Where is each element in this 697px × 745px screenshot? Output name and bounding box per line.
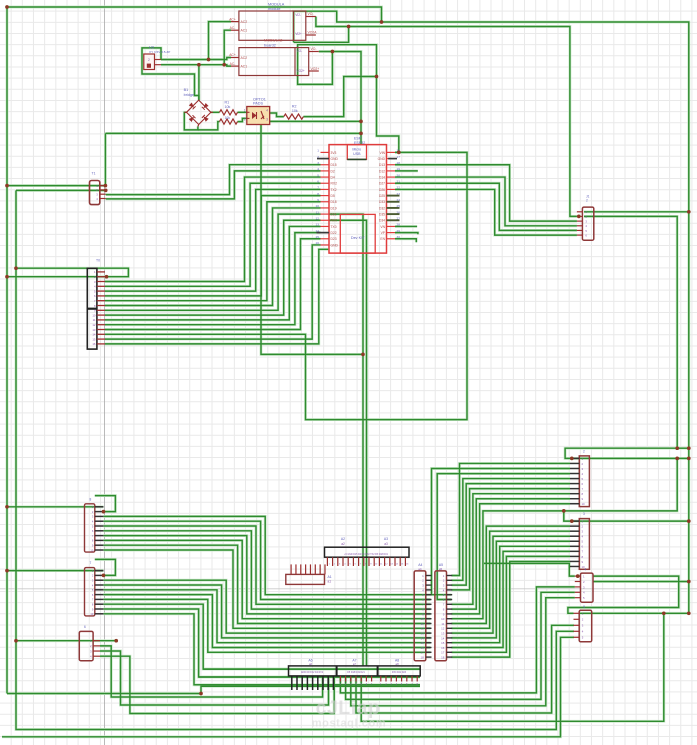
junction CN1 row loop: [675, 457, 679, 461]
svg-text:RX2: RX2: [331, 182, 338, 186]
svg-text:D34: D34: [379, 219, 385, 223]
svg-text:12: 12: [316, 216, 320, 220]
svg-text:a1: a1: [328, 580, 332, 584]
svg-text:7: 7: [90, 561, 92, 565]
svg-text:a7: a7: [353, 662, 357, 666]
svg-text:A3: A3: [384, 537, 388, 541]
svg-text:bridge: bridge: [184, 93, 195, 97]
svg-text:Micro: Micro: [352, 148, 361, 152]
junction left bus2 at D: [14, 639, 18, 643]
svg-text:7: 7: [317, 186, 319, 190]
junction D pin1: [114, 639, 118, 643]
svg-text:AC1: AC1: [241, 29, 248, 33]
svg-text:11: 11: [93, 318, 96, 322]
svg-text:6: 6: [317, 179, 319, 183]
resistor R2: [284, 105, 304, 120]
svg-text:GND: GND: [378, 157, 386, 161]
svg-text:12: 12: [441, 627, 445, 631]
svg-text:module: module: [268, 7, 280, 11]
connector T1: [90, 172, 106, 205]
svg-text:D18: D18: [331, 200, 337, 204]
junction bridge feed: [197, 63, 201, 67]
svg-text:D5 D18 D19 D21: D5 D18 D19 D21: [347, 672, 365, 674]
svg-text:AC2: AC2: [241, 56, 248, 60]
optocoupler OPTO1: [244, 97, 270, 124]
svg-text:VO2+: VO2+: [311, 67, 320, 71]
svg-text:A2: A2: [341, 537, 345, 541]
svg-text:9: 9: [317, 198, 319, 202]
junction B pin2: [102, 510, 106, 514]
svg-text:16: 16: [92, 342, 96, 346]
svg-text:D14: D14: [379, 175, 385, 179]
svg-text:12: 12: [420, 627, 424, 631]
junction CN3 pin1: [576, 574, 580, 578]
junction left bus2 T0: [14, 266, 18, 270]
svg-text:11: 11: [441, 622, 444, 626]
svg-text:MODULA: MODULA: [268, 3, 285, 7]
junction T1 pin2: [104, 189, 108, 193]
svg-text:30: 30: [397, 235, 401, 239]
junction CN2 feed join: [562, 509, 566, 513]
svg-text:17: 17: [420, 651, 424, 655]
junction board2 loop R2 tap: [375, 75, 379, 79]
svg-text:VIN: VIN: [380, 151, 386, 155]
svg-text:D25: D25: [379, 194, 385, 198]
svg-text:15: 15: [316, 235, 320, 239]
svg-text:VO-: VO-: [311, 47, 317, 51]
svg-text:1: 1: [317, 149, 319, 153]
svg-text:mostaql.com: mostaql.com: [312, 718, 386, 730]
svg-text:A1: A1: [328, 575, 332, 579]
svg-text:D27: D27: [379, 182, 385, 186]
svg-text:4: 4: [317, 167, 319, 171]
junction CN1 pin1: [570, 457, 574, 461]
svg-text:D13: D13: [379, 163, 385, 167]
resistor R1: [220, 101, 238, 115]
svg-text:XY 3.5V-3.5-3P: XY 3.5V-3.5-3P: [149, 50, 170, 54]
junction C pin2: [102, 574, 106, 578]
svg-text:D23: D23: [331, 237, 337, 241]
svg-text:12: 12: [92, 323, 96, 327]
svg-text:AC-: AC-: [230, 62, 236, 66]
junction J1p2 VIN-B: [687, 446, 691, 450]
junction opto column join: [361, 353, 365, 357]
svg-text:28: 28: [397, 223, 401, 227]
svg-text:a3: a3: [384, 542, 388, 546]
svg-text:D32: D32: [379, 206, 385, 210]
connector T0: [87, 259, 105, 350]
svg-text:21: 21: [397, 179, 401, 183]
svg-text:AC+: AC+: [229, 17, 236, 21]
svg-text:13: 13: [441, 632, 445, 636]
svg-text:U3: U3: [149, 46, 154, 50]
svg-text:cJLiap: cJLiap: [316, 697, 381, 719]
svg-text:AC2: AC2: [241, 20, 248, 24]
junction B feed: [5, 505, 9, 509]
svg-text:14: 14: [420, 636, 424, 640]
junction top B-line: [380, 20, 384, 24]
svg-text:D2: D2: [331, 169, 335, 173]
svg-text:VI2+: VI2+: [295, 32, 302, 36]
svg-text:10: 10: [316, 204, 320, 208]
svg-text:D21: D21: [331, 213, 337, 217]
module U4 MODULA: [229, 3, 317, 41]
junction C feed: [5, 569, 9, 573]
junction CN3 edge: [687, 580, 691, 584]
svg-text:VO2+: VO2+: [297, 69, 305, 73]
sheet boundary vertical: [104, 0, 106, 745]
regulator U3: [144, 46, 170, 70]
svg-text:a8: a8: [396, 662, 400, 666]
header A2 A3: [325, 537, 410, 566]
svg-text:1: 1: [244, 108, 246, 112]
sheet boundary horizontal: [0, 588, 697, 590]
svg-text:AC+: AC+: [229, 53, 236, 57]
svg-text:18: 18: [420, 656, 424, 660]
svg-text:2: 2: [244, 118, 246, 122]
watermark: [312, 697, 386, 730]
svg-text:a5: a5: [439, 567, 443, 571]
svg-text:a2: a2: [341, 542, 345, 546]
connector CN3: [575, 568, 593, 603]
svg-text:USB: USB: [353, 152, 361, 156]
svg-text:J1: J1: [586, 195, 590, 199]
svg-text:16: 16: [441, 646, 445, 650]
svg-text:19: 19: [397, 167, 401, 171]
svg-text:RX0 D22 D23: RX0 D22 D23: [392, 672, 407, 674]
bridge rectifier B1: [184, 88, 213, 127]
svg-text:D19: D19: [331, 206, 337, 210]
svg-text:10k: 10k: [292, 109, 298, 113]
svg-text:+5 GND D15 D2 D4 RX2 TX2 D5 D1: +5 GND D15 D2 D4 RX2 TX2 D5 D18 D19: [344, 554, 388, 556]
connector J1: [577, 195, 594, 241]
svg-text:4: 4: [266, 108, 268, 112]
connector CN1: [570, 449, 589, 506]
svg-text:14: 14: [92, 333, 96, 337]
svg-text:AC-: AC-: [230, 26, 236, 30]
connector CN4: [574, 605, 592, 642]
svg-text:6: 6: [84, 625, 86, 629]
svg-text:22: 22: [397, 186, 401, 190]
svg-text:13: 13: [92, 328, 96, 332]
svg-text:GND: GND: [331, 157, 339, 161]
svg-text:3: 3: [266, 118, 268, 122]
svg-text:a4: a4: [418, 567, 422, 571]
svg-text:15: 15: [441, 641, 445, 645]
connector CN2: [570, 512, 589, 569]
svg-text:8: 8: [317, 192, 319, 196]
junction frame branch: [199, 692, 203, 696]
junction J1 VIN-B: [687, 210, 691, 214]
junction T0 feed: [5, 275, 9, 279]
svg-text:10k: 10k: [225, 105, 231, 109]
svg-text:8: 8: [90, 497, 92, 501]
svg-text:3: 3: [317, 161, 319, 165]
svg-text:2: 2: [583, 449, 585, 453]
svg-text:3V3: 3V3: [331, 151, 337, 155]
svg-text:10k: 10k: [225, 116, 231, 120]
junction VIN module join: [397, 151, 401, 155]
svg-text:VO-: VO-: [297, 49, 303, 53]
header A6 A7 A8: [289, 659, 421, 690]
connector B: [85, 497, 104, 552]
svg-text:10: 10: [441, 617, 445, 621]
junction J1p2 corner: [675, 446, 679, 450]
svg-text:10: 10: [92, 313, 96, 317]
svg-text:PADS: PADS: [253, 102, 264, 106]
svg-text:RX0: RX0: [331, 219, 338, 223]
svg-text:T1: T1: [92, 172, 96, 176]
svg-text:3: 3: [583, 512, 585, 516]
svg-text:D15: D15: [331, 163, 337, 167]
svg-text:2: 2: [148, 58, 150, 62]
junction J1 pin2: [577, 215, 581, 219]
svg-text:15: 15: [92, 337, 96, 341]
svg-text:AC1: AC1: [241, 65, 248, 69]
resistor R1B: [220, 116, 238, 124]
svg-text:MODULA2: MODULA2: [264, 39, 282, 43]
svg-text:TX0: TX0: [331, 225, 337, 229]
svg-text:13: 13: [316, 223, 320, 227]
svg-text:Dev KIT: Dev KIT: [351, 236, 365, 240]
junction rowE CN4row: [662, 611, 666, 615]
svg-text:GND: GND: [331, 243, 339, 247]
junction CN2 pin1: [570, 519, 574, 523]
svg-text:20: 20: [397, 173, 401, 177]
svg-text:14: 14: [441, 636, 445, 640]
svg-text:10: 10: [420, 617, 424, 621]
svg-text:18: 18: [397, 161, 401, 165]
svg-text:D4: D4: [331, 175, 335, 179]
svg-text:16: 16: [420, 646, 424, 650]
svg-text:D33: D33: [379, 200, 385, 204]
svg-text:11: 11: [316, 210, 319, 214]
svg-text:VN: VN: [380, 225, 385, 229]
svg-text:29: 29: [397, 229, 401, 233]
connector D: [79, 625, 100, 661]
junction top-left corner: [5, 5, 9, 9]
svg-text:VI2-: VI2-: [295, 13, 301, 17]
svg-text:board2: board2: [264, 43, 276, 47]
junction T0 pin2: [105, 275, 109, 279]
junction board2 VO-: [331, 50, 335, 54]
junction module1 VO- branch: [347, 25, 351, 29]
svg-text:a6: a6: [309, 662, 313, 666]
connector C: [85, 561, 104, 616]
junction CN1 edge: [687, 457, 691, 461]
svg-text:D26: D26: [379, 188, 385, 192]
connector A4: [414, 563, 431, 661]
svg-text:D5: D5: [331, 194, 335, 198]
connector A5: [435, 563, 452, 661]
svg-text:VO-: VO-: [308, 12, 314, 16]
svg-text:5: 5: [583, 605, 585, 609]
svg-text:11: 11: [421, 622, 424, 626]
svg-text:D35: D35: [379, 213, 385, 217]
svg-text:5: 5: [317, 173, 319, 177]
junction CN4 edge: [687, 611, 691, 615]
junction opto emitter: [359, 120, 363, 124]
junction long wire end: [359, 132, 363, 136]
svg-text:T0: T0: [96, 259, 100, 263]
svg-text:4: 4: [585, 568, 587, 572]
svg-text:GND D15 D2 D4 RX2: GND D15 D2 D4 RX2: [301, 672, 324, 674]
svg-text:13: 13: [420, 632, 424, 636]
IC U1 ESP32 DevKit: [316, 137, 401, 254]
svg-text:VO2A: VO2A: [308, 30, 318, 34]
svg-text:B1: B1: [184, 88, 189, 92]
svg-text:15: 15: [420, 641, 424, 645]
svg-text:17: 17: [441, 651, 445, 655]
svg-text:D12: D12: [379, 169, 385, 173]
svg-text:16: 16: [316, 241, 320, 245]
svg-text:18: 18: [441, 656, 445, 660]
svg-text:2: 2: [586, 199, 588, 203]
svg-text:17: 17: [397, 155, 401, 159]
svg-text:D22: D22: [331, 231, 337, 235]
junction AC1 node: [222, 63, 226, 67]
junction CN2 edge: [687, 519, 691, 523]
svg-text:ESP32: ESP32: [354, 141, 365, 145]
module U5 board2: [229, 39, 319, 76]
svg-text:10: 10: [582, 502, 586, 506]
junction left bus T1: [5, 184, 9, 188]
junction T1 pin1: [104, 184, 108, 188]
header A1: [286, 564, 332, 584]
junction AC2 node: [207, 58, 211, 62]
svg-text:EN: EN: [380, 237, 385, 241]
svg-text:TX2: TX2: [331, 188, 337, 192]
